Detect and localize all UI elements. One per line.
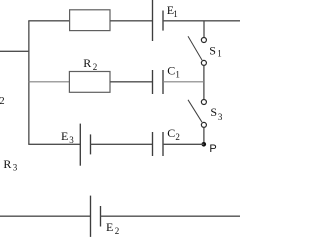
svg-text:1: 1	[217, 48, 222, 58]
switch S1 bottom contact	[201, 60, 206, 65]
switch S3 blade	[188, 100, 202, 122]
svg-text:R: R	[83, 56, 91, 70]
wire row2 bus to R2	[28, 81, 69, 83]
wire E2 to right edge	[101, 215, 241, 217]
svg-text:3: 3	[69, 135, 74, 145]
wire row1 bus to R1	[28, 20, 69, 22]
switch S3 bottom contact	[201, 122, 206, 127]
switch S1 top contact	[201, 38, 206, 43]
wire row4 left to E2	[0, 215, 91, 217]
resistor R1	[70, 10, 110, 31]
switch S3 top contact	[201, 100, 206, 105]
svg-text:2: 2	[115, 226, 120, 236]
wire R2 to C1	[110, 81, 153, 83]
wire E1 to right edge	[163, 20, 240, 22]
svg-text:P: P	[209, 143, 216, 155]
wire stub left y=51	[0, 50, 29, 52]
wire row3 bus corner to E3	[28, 143, 80, 145]
svg-text:S: S	[209, 43, 216, 57]
svg-text:3: 3	[13, 163, 18, 173]
resistor R2	[69, 72, 110, 93]
svg-text:C: C	[167, 126, 175, 140]
svg-text:3: 3	[218, 112, 223, 122]
switch S1 blade	[188, 36, 202, 60]
wire E3 to C2	[91, 143, 153, 145]
svg-text:2: 2	[93, 62, 98, 72]
capacitor C1	[153, 70, 164, 94]
battery E2	[91, 196, 101, 237]
svg-text:E: E	[106, 220, 113, 234]
capacitor C2	[153, 132, 164, 156]
battery E1	[153, 0, 164, 41]
svg-text:1: 1	[175, 70, 180, 80]
svg-text:R: R	[3, 157, 11, 171]
node P dot	[202, 142, 207, 147]
svg-text:E: E	[61, 129, 68, 143]
svg-text:C: C	[167, 64, 175, 78]
wire junction down to S1	[203, 21, 205, 38]
svg-text:S: S	[210, 105, 217, 119]
svg-text:2: 2	[0, 96, 5, 107]
wire S3 to node P	[203, 127, 205, 144]
wire left bus vertical	[28, 21, 30, 145]
wire S1 to S3	[203, 66, 205, 100]
battery E3	[80, 124, 90, 166]
svg-text:1: 1	[173, 9, 178, 19]
wire C2 to node P	[163, 143, 204, 145]
wire R1 to E1	[110, 20, 153, 22]
svg-text:2: 2	[175, 132, 180, 142]
wire C1 to S branch	[163, 81, 204, 83]
